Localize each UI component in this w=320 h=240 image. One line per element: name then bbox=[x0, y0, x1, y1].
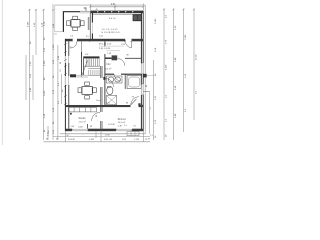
svg-text:Essz.: Essz. bbox=[97, 100, 103, 102]
svg-text:2,05 1,0 88: 2,05 1,0 88 bbox=[99, 48, 111, 50]
svg-text:94: 94 bbox=[56, 139, 58, 141]
svg-text:1,06m: 1,06m bbox=[78, 126, 84, 128]
svg-text:2,135: 2,135 bbox=[53, 44, 55, 50]
svg-text:1,135: 1,135 bbox=[44, 60, 46, 66]
svg-text:1,0 ․ 1,5 ․ 1,4 1,5: 1,0 ․ 1,5 ․ 1,4 1,5 bbox=[102, 29, 119, 31]
svg-text:1,385: 1,385 bbox=[89, 139, 95, 141]
svg-text:14,2 m²: 14,2 m² bbox=[118, 121, 126, 124]
svg-text:4,0 1,0: 4,0 1,0 bbox=[109, 18, 116, 20]
svg-text:88: 88 bbox=[126, 103, 128, 105]
svg-text:88: 88 bbox=[146, 85, 148, 87]
svg-text:1,135: 1,135 bbox=[134, 139, 140, 141]
svg-text:1,5: 1,5 bbox=[54, 34, 57, 36]
svg-text:94: 94 bbox=[132, 96, 134, 98]
svg-text:45: 45 bbox=[96, 9, 98, 11]
svg-text:88: 88 bbox=[96, 115, 98, 117]
svg-text:4,51: 4,51 bbox=[111, 4, 116, 6]
svg-text:12,49: 12,49 bbox=[196, 54, 198, 60]
svg-text:1,0: 1,0 bbox=[60, 69, 62, 72]
svg-text:1,06: 1,06 bbox=[71, 126, 75, 128]
svg-text:Flur: Flur bbox=[107, 63, 111, 66]
svg-text:1,38: 1,38 bbox=[118, 126, 122, 128]
svg-text:88 1,01 2,05: 88 1,01 2,05 bbox=[99, 43, 112, 45]
svg-text:3,135: 3,135 bbox=[166, 64, 168, 70]
svg-text:1,1: 1,1 bbox=[150, 135, 153, 137]
svg-text:H 1,5 CB 2R 1,5 D: H 1,5 CB 2R 1,5 D bbox=[102, 32, 121, 34]
svg-text:88: 88 bbox=[127, 55, 129, 57]
svg-text:36: 36 bbox=[46, 139, 48, 141]
svg-text:94: 94 bbox=[67, 135, 69, 137]
svg-text:94: 94 bbox=[134, 126, 136, 128]
svg-text:1,3: 1,3 bbox=[150, 107, 152, 110]
svg-text:5,385: 5,385 bbox=[27, 21, 29, 27]
svg-text:1,94: 1,94 bbox=[106, 103, 110, 105]
svg-text:2,635: 2,635 bbox=[44, 90, 46, 96]
svg-text:7,385: 7,385 bbox=[185, 34, 187, 40]
svg-text:1,01 88: 1,01 88 bbox=[108, 124, 116, 126]
svg-text:Bad: Bad bbox=[107, 87, 112, 89]
svg-text:6,5 m²: 6,5 m² bbox=[105, 68, 111, 71]
svg-text:3,635: 3,635 bbox=[105, 134, 110, 136]
svg-text:12,5 m²: 12,5 m² bbox=[79, 121, 87, 124]
svg-text:2,385: 2,385 bbox=[155, 18, 157, 24]
svg-text:88: 88 bbox=[90, 126, 92, 128]
svg-text:3,63 88: 3,63 88 bbox=[68, 139, 76, 141]
svg-text:14,49: 14,49 bbox=[145, 139, 151, 141]
svg-text:Zimmer: Zimmer bbox=[118, 118, 126, 121]
svg-text:4,26 1,01: 4,26 1,01 bbox=[104, 139, 113, 141]
svg-text:88: 88 bbox=[60, 62, 62, 64]
svg-text:Studio: Studio bbox=[79, 117, 86, 120]
svg-text:1,5²: 1,5² bbox=[85, 53, 89, 56]
